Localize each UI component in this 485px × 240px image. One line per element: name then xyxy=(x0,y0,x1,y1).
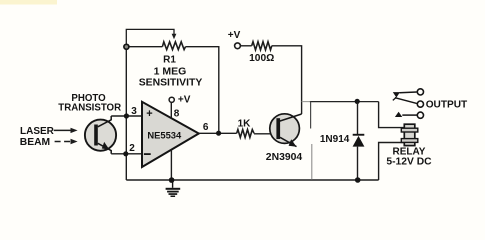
transistor Q2 emitter lead with arrow xyxy=(280,137,297,147)
scan artifact yellow strip top-left xyxy=(0,0,57,5)
svg-text:LASER: LASER xyxy=(20,126,55,137)
wire: top feedback wire from R1 node to output node xyxy=(126,46,162,48)
+V terminal (100 ohm branch) xyxy=(235,43,241,49)
svg-text:3: 3 xyxy=(131,106,137,117)
relay K1 coil body xyxy=(404,124,415,145)
svg-text:+V: +V xyxy=(228,30,241,41)
relay contact pole B triangle xyxy=(395,112,402,117)
wire: R1 right to feedback corner xyxy=(186,47,219,134)
junction dot R1-left node xyxy=(124,44,129,49)
svg-text:1K: 1K xyxy=(238,118,252,129)
transistor Q2 collector lead xyxy=(279,114,302,122)
relay contact pole A pivot triangle xyxy=(393,92,400,100)
op-amp minus sign xyxy=(144,153,151,155)
svg-text:1 MEG: 1 MEG xyxy=(154,65,187,77)
svg-text:2: 2 xyxy=(129,143,135,154)
relay contact terminal circle bottom xyxy=(417,112,423,118)
wire: phototransistor emitter to op-amp pin 2 xyxy=(111,153,142,155)
phototransistor Q1 collector lead xyxy=(98,116,111,127)
wire: collector node across to diode/relay node xyxy=(302,101,310,103)
wire: ground rail xyxy=(126,179,378,181)
wire: faint emitter to rail xyxy=(311,144,313,180)
+V terminal above op-amp xyxy=(169,97,174,102)
transistor Q2 2N3904 body xyxy=(270,114,300,144)
junction dot ground node xyxy=(169,177,175,183)
junction dot output node xyxy=(216,131,221,136)
relay K1 top tab xyxy=(401,128,418,132)
svg-text:NE5534: NE5534 xyxy=(147,129,182,140)
svg-text:+: + xyxy=(146,108,152,120)
wire: op-amp output to 1K xyxy=(199,132,237,134)
relay contact terminal circle top xyxy=(417,89,423,95)
relay contact terminal circle middle xyxy=(417,101,423,107)
phototransistor Q1 body xyxy=(85,120,116,151)
wire: node down to relay coil top tab xyxy=(379,102,404,128)
wire: short vertical at collector node xyxy=(310,102,312,129)
svg-text:6: 6 xyxy=(203,122,209,133)
relay contact pole B line xyxy=(402,114,417,116)
resistor 1K zigzag xyxy=(237,130,254,138)
op-amp pin 8 stub xyxy=(170,102,172,118)
relay K1 bottom tab xyxy=(401,139,418,143)
resistor 100 ohm zigzag xyxy=(252,42,272,50)
relay contact pole A line to NO terminal xyxy=(400,91,417,94)
svg-text:+V: +V xyxy=(178,94,191,105)
svg-text:1N914: 1N914 xyxy=(320,134,350,145)
laser beam arrow 1 xyxy=(54,128,78,133)
svg-text:5-12V DC: 5-12V DC xyxy=(386,156,432,167)
ground symbol xyxy=(166,180,181,197)
diode D1 1N914 xyxy=(353,102,365,180)
laser beam arrow 2 (dashed) xyxy=(55,139,78,144)
junction dot pin2 node xyxy=(123,151,128,156)
svg-text:SENSITIVITY: SENSITIVITY xyxy=(139,78,203,89)
transistor Q2 base bar xyxy=(276,118,280,139)
phototransistor Q1 base bar xyxy=(94,125,98,146)
svg-text:R1: R1 xyxy=(163,54,176,65)
svg-text:2N3904: 2N3904 xyxy=(266,152,303,163)
svg-text:OUTPUT: OUTPUT xyxy=(426,99,468,110)
svg-text:BEAM: BEAM xyxy=(20,137,50,148)
svg-text:100Ω: 100Ω xyxy=(249,53,274,64)
wire: relay coil bottom tab to ground rail xyxy=(379,143,404,181)
resistor R1 zigzag xyxy=(162,42,185,50)
op-amp pin 4 stub down xyxy=(170,150,172,180)
svg-text:8: 8 xyxy=(174,109,180,120)
wire: R1 wiper loop (up and over with arrow) xyxy=(126,29,176,46)
junction dot diode bottom node xyxy=(355,177,361,183)
wire: phototransistor collector to op-amp pin 3 xyxy=(111,115,142,117)
op-amp U1 NE5534 triangle xyxy=(142,102,199,167)
junction dot diode top node xyxy=(355,99,360,104)
relay contact armature slant line xyxy=(395,98,417,104)
wire: 1K to 2N3904 base xyxy=(254,133,276,135)
svg-text:TRANSISTOR: TRANSISTOR xyxy=(58,103,121,114)
wire: +V to 100 ohm xyxy=(240,45,251,47)
wire: left bus vertical (R1 node down to ground rail) xyxy=(125,47,127,180)
wire: 100 ohm over and down to collector node xyxy=(272,46,302,114)
phototransistor Q1 emitter lead with arrow xyxy=(98,142,111,154)
junction dot pin3 node xyxy=(124,113,129,118)
